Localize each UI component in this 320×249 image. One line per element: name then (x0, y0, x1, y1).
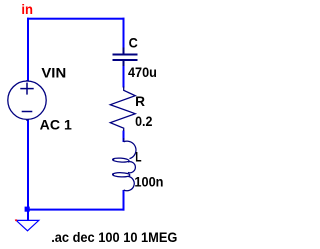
wire resistor to inductor (123, 131, 125, 143)
voltage source VIN (8, 80, 46, 121)
svg-text:R: R (135, 93, 145, 109)
svg-text:C: C (129, 34, 138, 50)
voltage source plus (20, 83, 33, 95)
svg-text:in: in (21, 1, 33, 17)
wire top horizontal (27, 18, 125, 20)
wire left vertical lower (27, 119, 29, 209)
wire cap to resistor (123, 66, 125, 88)
junction dot (25, 207, 30, 212)
svg-text:0.2: 0.2 (135, 113, 152, 129)
svg-text:100n: 100n (134, 174, 163, 190)
ground red tick (15, 219, 17, 221)
wire left vertical upper (27, 18, 29, 81)
svg-text:.ac dec 100 10 1MEG: .ac dec 100 10 1MEG (51, 230, 177, 245)
resistor R zigzag (110, 87, 135, 132)
wire ground stub (27, 211, 29, 221)
wire right vertical upper (123, 18, 125, 48)
svg-text:470u: 470u (128, 64, 157, 80)
voltage source minus (22, 111, 33, 113)
svg-text:AC 1: AC 1 (40, 117, 72, 133)
wire inductor to bottom corner (123, 190, 125, 211)
wire bottom horizontal (27, 209, 125, 211)
svg-text:VIN: VIN (41, 65, 66, 81)
svg-text:L: L (135, 148, 142, 164)
capacitor C (113, 48, 138, 67)
ground (16, 220, 39, 230)
inductor L coil (112, 138, 136, 191)
